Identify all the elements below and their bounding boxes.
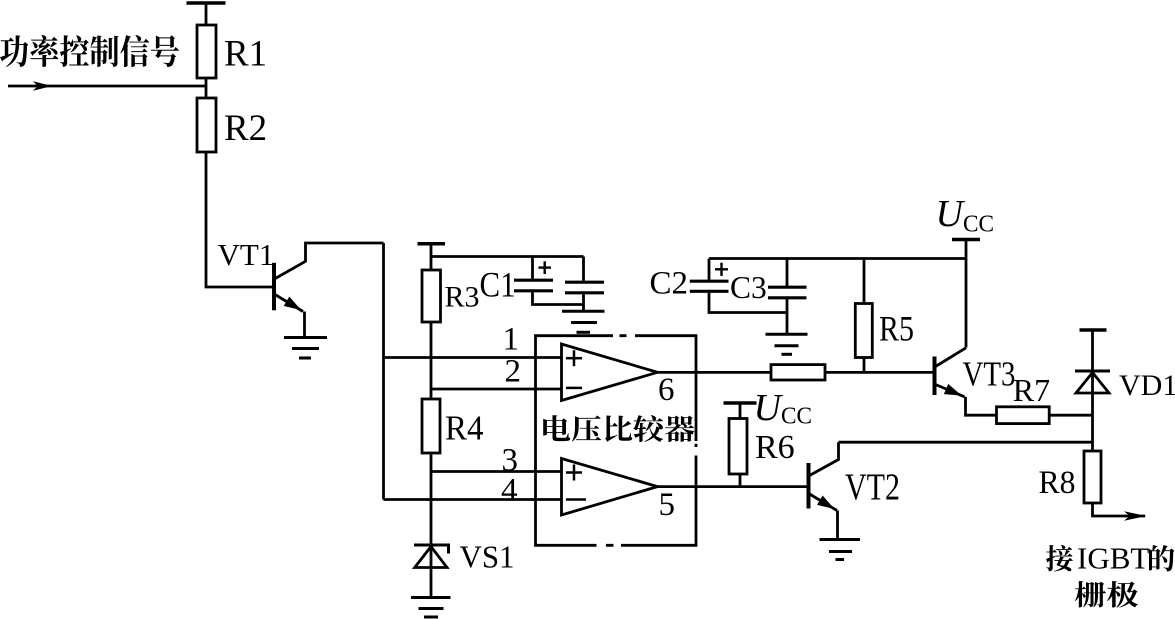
wire: rail to R5: [863, 259, 866, 304]
wire: VT1 collector trunk down to pin 4 wire: [382, 243, 385, 500]
svg-text:U: U: [754, 387, 784, 429]
ground below VS1: [411, 596, 451, 599]
label: input signal text 功率控制信号: [0, 35, 179, 67]
wire: terminal to VD1 cathode: [1091, 330, 1094, 451]
wire: C2 top lead: [708, 259, 711, 280]
op-amp U1b minus input symbol: [566, 498, 586, 501]
wire: Ucc rail from C2 to VT3 collector branch: [709, 257, 966, 260]
svg-text:CC: CC: [781, 404, 812, 430]
wire: VT3 emitter to R7: [966, 397, 997, 415]
transistor VT3 base bar: [933, 357, 937, 396]
capacitor C1 plates: [514, 279, 553, 282]
label: output text 接IGBT的: [1046, 545, 1073, 571]
wire: bypass cap to ground: [582, 294, 585, 311]
capacitor C2 polarity plus: [715, 268, 728, 270]
label: output text 的: [1149, 545, 1174, 572]
svg-text:6: 6: [658, 372, 675, 408]
resistor R6: [729, 419, 747, 475]
svg-text:R8: R8: [1039, 465, 1076, 501]
svg-text:R4: R4: [445, 409, 484, 448]
resistor R7: [997, 407, 1050, 424]
svg-text:4: 4: [501, 473, 518, 509]
svg-text:R6: R6: [755, 429, 795, 466]
wire: C1 top lead: [531, 257, 534, 279]
op-amp U1b plus input symbol: [566, 465, 582, 481]
wire: VT2 emitter to ground: [836, 511, 839, 540]
wire: R7 to VD1 node: [1049, 414, 1092, 417]
svg-text:C3: C3: [730, 270, 767, 305]
resistor R4: [422, 399, 440, 453]
transistor VT1 emitter arrowhead: [284, 297, 301, 310]
wire: pin 6 output: [658, 371, 772, 374]
transistor VT3 emitter: [936, 385, 965, 397]
power terminal Ucc (top right) bar: [952, 238, 980, 242]
supply terminal bar above R3: [418, 242, 446, 246]
transistor VT3 emitter arrowhead: [944, 384, 962, 396]
label: comparator text 电压比较器: [543, 415, 694, 442]
wire: R1 to R2 junction: [205, 78, 208, 98]
diode VD1 triangle: [1076, 373, 1109, 394]
resistor R3: [422, 270, 441, 322]
resistor R5: [855, 304, 872, 358]
comparator U1 box outline (chain line): [536, 336, 697, 546]
wire: branch to C1 group: [431, 255, 584, 258]
ground below VT1: [284, 336, 327, 339]
ground below VT2: [820, 538, 861, 541]
svg-text:R5: R5: [879, 309, 914, 349]
power terminal bar above VD1: [1080, 328, 1107, 332]
wire: R4 to VS1: [430, 453, 433, 597]
ground below C1 group: [562, 310, 605, 313]
wire: C3 to ground: [786, 299, 789, 334]
wire: pin 4 input: [384, 498, 562, 501]
svg-text:VT1: VT1: [218, 237, 275, 272]
wire: pin 5 output to VT2 base: [658, 485, 809, 488]
diode VD1 cathode bar: [1075, 370, 1110, 373]
arrowhead on input signal wire: [33, 81, 52, 90]
svg-text:VD1: VD1: [1119, 369, 1175, 402]
wire: R2 to VT1 base: [206, 152, 274, 287]
svg-text:VS1: VS1: [460, 539, 515, 575]
resistor R1: [197, 25, 216, 78]
wire: VT2 collector to output node: [839, 441, 1093, 444]
wire: Ucc to R6: [739, 403, 742, 419]
wire: R3 to R4: [430, 322, 433, 399]
capacitor C2 plates: [690, 280, 729, 283]
capacitor C1 polarity plus: [539, 266, 552, 268]
wire: R5 to VT3 base wire: [863, 358, 866, 373]
svg-text:1: 1: [503, 322, 520, 358]
svg-text:R7: R7: [1013, 372, 1050, 408]
transistor VT3 collector: [936, 348, 967, 367]
wire: VT1 emitter to ground: [303, 312, 306, 338]
wire: R6 to pin 5 wire: [739, 474, 742, 487]
op-amp U1b triangle: [562, 459, 658, 516]
resistor R2: [197, 98, 216, 152]
output arrowhead to IGBT gate: [1124, 511, 1147, 520]
wire: pin 1 input: [384, 356, 562, 359]
svg-text:R1: R1: [224, 34, 267, 75]
capacitor C3 plates: [768, 286, 807, 289]
power terminal Ucc (above R6) bar: [724, 401, 757, 405]
wire: terminal to R1: [205, 3, 208, 25]
wire: C3 top lead: [786, 259, 789, 287]
wire: pin 3 input from R4/VS1 junction: [431, 470, 562, 473]
series resistor on pin 6 output: [771, 365, 825, 380]
svg-text:2: 2: [505, 354, 522, 390]
wire: bypass cap top lead: [582, 257, 585, 281]
op-amp U1a triangle: [562, 344, 658, 401]
bypass capacitor plates (beside C1): [565, 281, 604, 284]
svg-text:R2: R2: [224, 108, 267, 149]
svg-text:R3: R3: [445, 281, 480, 314]
wire: pin 2 input from R3/R4 junction: [431, 388, 562, 391]
svg-text:U: U: [936, 193, 966, 235]
wire: series resistor to VT3 base: [825, 371, 935, 374]
transistor VT1 emitter: [275, 295, 303, 312]
svg-text:VT2: VT2: [845, 466, 900, 508]
transistor VT2 collector: [810, 442, 839, 475]
op-amp U1a minus input symbol: [566, 387, 582, 390]
svg-text:C2: C2: [650, 265, 689, 301]
transistor VT2 emitter: [810, 494, 838, 511]
transistor VT2 base bar: [807, 463, 811, 509]
transistor VT1 collector: [275, 243, 384, 279]
svg-text:5: 5: [659, 487, 676, 523]
resistor R8: [1084, 451, 1101, 503]
wire: C1 bottom lead: [533, 292, 584, 304]
wire: terminal to R3: [430, 244, 433, 270]
supply terminal bar above R1: [187, 1, 226, 5]
svg-text:C1: C1: [480, 264, 516, 304]
svg-text:CC: CC: [963, 212, 994, 238]
wire: input signal line with arrow: [8, 85, 206, 88]
ground below C3: [766, 333, 808, 336]
wire: C2 bottom lead: [709, 293, 787, 313]
zener diode VS1 triangle: [415, 547, 447, 568]
wire: R8 to output arrow: [1093, 503, 1146, 516]
label: output text 栅极: [1075, 581, 1138, 608]
op-amp U1a plus input symbol: [566, 350, 582, 366]
wire: Ucc to VT3 collector: [965, 240, 968, 348]
transistor VT1 base bar: [272, 263, 276, 311]
svg-text:IGBT: IGBT: [1077, 541, 1149, 576]
zener diode VS1 cathode bar: [414, 545, 449, 554]
svg-text:VT3: VT3: [963, 356, 1016, 394]
transistor VT2 emitter arrowhead: [817, 496, 834, 510]
